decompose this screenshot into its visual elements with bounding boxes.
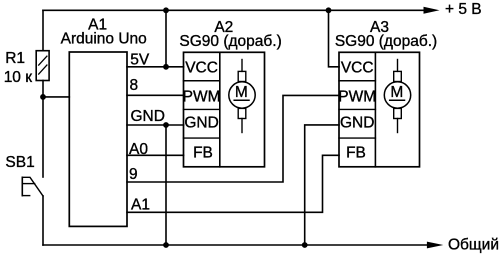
svg-text:SB1: SB1 xyxy=(5,154,34,171)
svg-text:FB: FB xyxy=(346,145,366,162)
svg-text:R1: R1 xyxy=(5,50,25,67)
svg-text:VCC: VCC xyxy=(341,59,374,76)
svg-text:+ 5 В: + 5 В xyxy=(445,1,482,18)
svg-text:10 к: 10 к xyxy=(4,69,33,86)
svg-text:PWM: PWM xyxy=(183,88,221,105)
svg-text:Arduino Uno: Arduino Uno xyxy=(61,30,147,47)
svg-text:GND: GND xyxy=(184,115,218,132)
svg-text:FB: FB xyxy=(193,145,213,162)
svg-text:A0: A0 xyxy=(129,141,148,158)
svg-text:M: M xyxy=(235,84,248,101)
svg-text:8: 8 xyxy=(130,77,139,94)
svg-text:M: M xyxy=(390,84,403,101)
svg-text:A1: A1 xyxy=(131,197,150,214)
svg-text:5V: 5V xyxy=(130,52,150,69)
svg-text:SG90 (дораб.): SG90 (дораб.) xyxy=(179,33,281,50)
svg-text:VCC: VCC xyxy=(185,59,218,76)
svg-text:Общий: Общий xyxy=(448,237,499,254)
svg-text:GND: GND xyxy=(131,108,165,125)
svg-text:PWM: PWM xyxy=(338,88,376,105)
svg-text:9: 9 xyxy=(129,166,138,183)
svg-text:GND: GND xyxy=(340,115,374,132)
svg-text:SG90 (дораб.): SG90 (дораб.) xyxy=(335,33,437,50)
